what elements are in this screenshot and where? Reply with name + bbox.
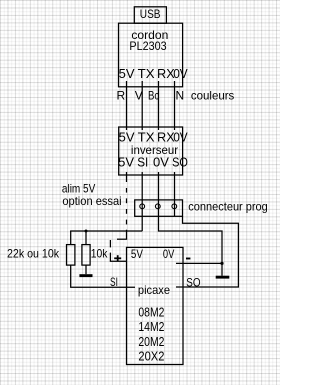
wire SO inverseur to connecteur xyxy=(174,172,176,216)
svg-text:14M2: 14M2 xyxy=(138,319,164,334)
svg-text:SO: SO xyxy=(186,275,200,289)
module U2 inverseur xyxy=(119,127,183,175)
svg-text:20X2: 20X2 xyxy=(138,349,164,364)
wire TX cordon to inverseur xyxy=(141,81,143,130)
ground GND2 xyxy=(216,276,230,279)
wire RX cordon to inverseur xyxy=(158,81,160,130)
svg-text:V: V xyxy=(135,89,143,103)
wire serial rail xyxy=(70,230,142,232)
svg-text:0V: 0V xyxy=(153,155,169,170)
resistor R2 10k lead top xyxy=(85,231,87,245)
pin 2 0V xyxy=(155,204,160,209)
pin 1 SI xyxy=(140,204,145,209)
wire 5V cordon to inverseur xyxy=(126,81,128,130)
svg-text:PL2303: PL2303 xyxy=(129,39,166,53)
resistor R1 22k ou 10k lead top xyxy=(70,231,72,245)
svg-text:SI: SI xyxy=(110,275,118,289)
svg-text:22k ou 10k: 22k ou 10k xyxy=(7,247,60,261)
svg-text:USB: USB xyxy=(140,7,161,21)
svg-text:TX: TX xyxy=(138,66,155,81)
pin 3 SO xyxy=(172,204,177,209)
svg-text:connecteur prog: connecteur prog xyxy=(188,200,267,214)
svg-text:08M2: 08M2 xyxy=(138,304,164,319)
connector J2 prog xyxy=(135,200,183,216)
wire SO connecteur to picaxe SO xyxy=(176,216,238,287)
svg-text:5V: 5V xyxy=(131,247,143,261)
svg-text:SI: SI xyxy=(137,155,148,170)
wire 5V dashed option essai xyxy=(110,172,127,261)
polarity mark minus xyxy=(186,258,190,260)
svg-text:10k: 10k xyxy=(91,247,109,261)
resistor R2 lead bottom xyxy=(85,265,87,274)
svg-text:SO: SO xyxy=(172,155,188,170)
svg-text:5V: 5V xyxy=(118,155,134,170)
pin labels inverseur top 5V TX RX 0V xyxy=(119,130,188,145)
connector USB xyxy=(134,7,166,23)
wire 0V inverseur to ground xyxy=(159,172,223,276)
pin labels cordon 5V TX RX 0V xyxy=(119,66,188,81)
wire picaxe 0V stub to ground xyxy=(176,262,222,264)
svg-text:0V: 0V xyxy=(173,66,188,81)
svg-text:N: N xyxy=(176,89,185,103)
svg-text:0V: 0V xyxy=(163,247,174,261)
module U1 cordon PL2303 xyxy=(119,23,183,87)
svg-text:Bc: Bc xyxy=(148,89,159,103)
resistor R1 lead bottom + wire to picaxe SI xyxy=(71,265,135,287)
ground GND1 xyxy=(79,274,92,277)
svg-text:option essai: option essai xyxy=(62,194,121,208)
resistor R2 10k xyxy=(82,245,90,266)
pin labels inverseur bottom 5V SI 0V SO xyxy=(118,155,188,170)
svg-text:picaxe: picaxe xyxy=(138,283,170,297)
wire 0V cordon to inverseur xyxy=(174,81,176,130)
svg-text:couleurs: couleurs xyxy=(191,89,234,103)
wire SI inverseur to connecteur to rail xyxy=(141,172,143,231)
svg-text:5V: 5V xyxy=(119,66,135,81)
svg-text:R: R xyxy=(117,89,126,103)
polarity mark plus xyxy=(114,255,121,261)
svg-text:20M2: 20M2 xyxy=(138,334,164,349)
junction dot rail/R2 xyxy=(85,230,88,233)
junction dot 0V/ground xyxy=(220,262,223,265)
resistor R1 22k ou 10k xyxy=(67,245,75,266)
ic U3 picaxe xyxy=(127,247,184,364)
